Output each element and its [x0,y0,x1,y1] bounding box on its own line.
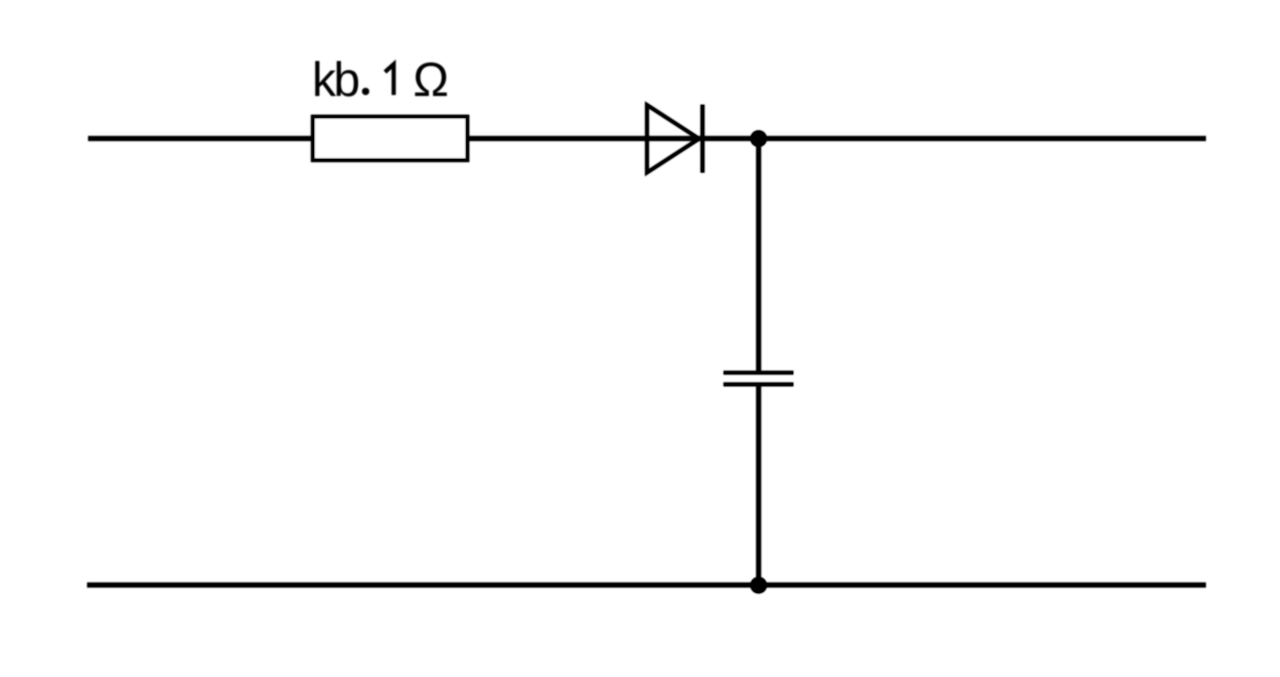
wire top rail [88,136,1206,141]
node junction dot bottom (core) [751,577,767,593]
wire top rail right segment (core) [468,137,1205,140]
capacitor C1 top plate [723,371,793,375]
diode D1 triangle (core) [647,105,699,173]
diode D1 triangle [647,105,699,173]
resistor value label digit 1 [385,64,394,95]
diode D1 cathode bar (core) [701,105,704,172]
diode D1 cathode bar [700,105,704,173]
node junction dot bottom [750,577,767,594]
resistor R1 body [313,117,468,161]
capacitor C1 bottom plate (core) [724,383,793,386]
wire vertical node-to-capacitor segment [756,139,761,373]
node junction dot top (core) [751,131,767,147]
wire vertical node-to-capacitor segment (core) [757,139,760,373]
svg-text:Ω: Ω [413,54,449,107]
wire bottom rail [87,582,1206,587]
resistor value label period [362,88,369,95]
wire bottom rail (core) [88,583,1205,586]
resistor R1 body (core) [313,117,468,161]
wire capacitor-to-bottom-rail segment [756,384,761,585]
svg-text:kb: kb [312,54,359,107]
wire capacitor-to-bottom-rail segment (core) [757,384,760,584]
node junction dot top [750,130,767,147]
capacitor C1 bottom plate [723,382,793,386]
capacitor C1 top plate (core) [724,371,793,374]
wire top rail left segment (core) [89,137,312,140]
